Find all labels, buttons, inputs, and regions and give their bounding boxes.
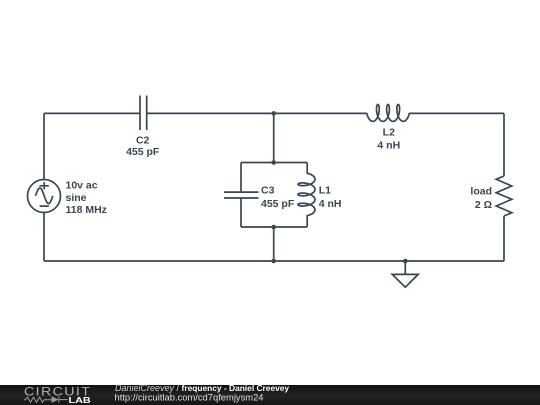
- svg-text:C2: C2: [136, 134, 150, 146]
- svg-text:C3: C3: [261, 185, 275, 197]
- svg-text:4 nH: 4 nH: [377, 140, 400, 152]
- svg-text:L1: L1: [319, 185, 331, 197]
- svg-text:sine: sine: [66, 192, 87, 204]
- svg-text:L2: L2: [383, 126, 395, 138]
- svg-text:118 MHz: 118 MHz: [66, 204, 107, 216]
- svg-text:455 pF: 455 pF: [261, 198, 295, 210]
- svg-text:load: load: [470, 186, 492, 198]
- svg-text:2 Ω: 2 Ω: [475, 199, 492, 211]
- svg-text:455 pF: 455 pF: [126, 146, 160, 158]
- svg-text:LAB: LAB: [69, 396, 91, 405]
- svg-text:http://circuitlab.com/cd7qfemj: http://circuitlab.com/cd7qfemjysm24: [115, 392, 264, 403]
- svg-text:10v ac: 10v ac: [66, 180, 98, 192]
- svg-text:4 nH: 4 nH: [319, 198, 342, 210]
